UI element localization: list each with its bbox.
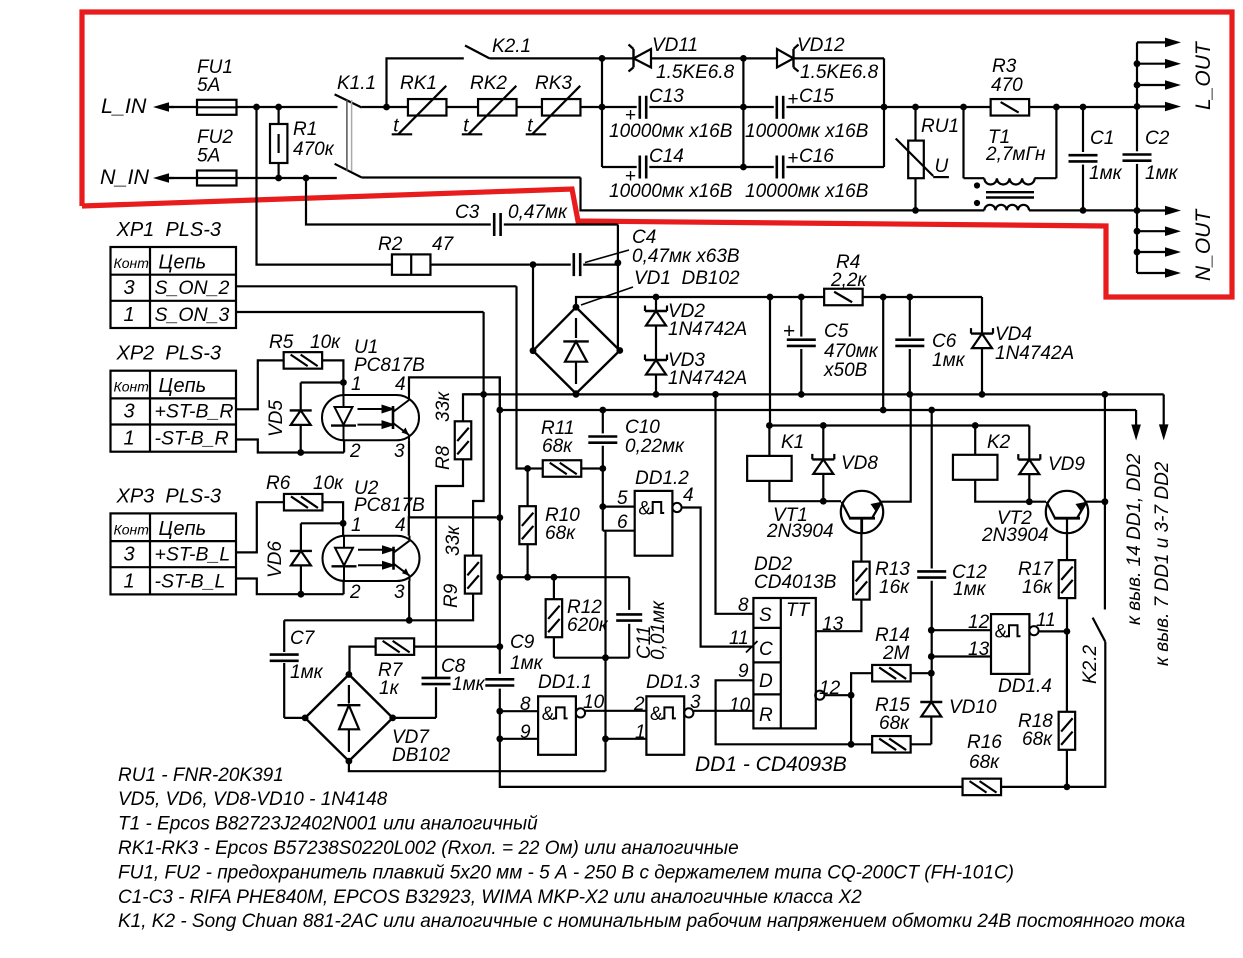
svg-text:13: 13 bbox=[968, 639, 990, 660]
svg-text:2: 2 bbox=[633, 694, 645, 715]
svg-text:3: 3 bbox=[124, 401, 135, 423]
svg-text:N_IN: N_IN bbox=[100, 165, 149, 189]
svg-text:RK2: RK2 bbox=[470, 73, 507, 94]
svg-text:T1 - Epcos B82723J2402N001 или: T1 - Epcos B82723J2402N001 или аналогичн… bbox=[118, 814, 538, 835]
svg-text:1мк: 1мк bbox=[1089, 163, 1123, 184]
svg-text:11: 11 bbox=[1036, 610, 1056, 631]
svg-text:11: 11 bbox=[729, 628, 749, 649]
svg-text:CD4013B: CD4013B bbox=[754, 572, 837, 593]
svg-text:&: & bbox=[542, 704, 555, 725]
svg-text:2: 2 bbox=[349, 441, 361, 462]
svg-text:VD11: VD11 bbox=[652, 35, 698, 56]
svg-text:RK1-RK3 - Epcos B57238S0220L00: RK1-RK3 - Epcos B57238S0220L002 (Rхол. =… bbox=[118, 838, 739, 859]
svg-text:1мк: 1мк bbox=[932, 350, 966, 371]
svg-text:K1, K2 - Song Chuan 881-2AC ил: K1, K2 - Song Chuan 881-2AC или аналогич… bbox=[118, 911, 1185, 932]
svg-text:C3: C3 bbox=[455, 202, 480, 223]
svg-text:C10: C10 bbox=[625, 417, 660, 438]
svg-text:9: 9 bbox=[738, 661, 749, 682]
svg-text:C5: C5 bbox=[824, 321, 849, 342]
svg-text:3: 3 bbox=[394, 441, 405, 462]
svg-text:L_IN: L_IN bbox=[101, 94, 147, 118]
svg-text:FU1, FU2 - предохранитель плав: FU1, FU2 - предохранитель плавкий 5х20 м… bbox=[118, 862, 1014, 883]
svg-text:C1-C3 - RIFA PHE840M, EPCOS B3: C1-C3 - RIFA PHE840M, EPCOS B32923, WIMA… bbox=[118, 887, 862, 908]
svg-text:C6: C6 bbox=[932, 331, 957, 352]
svg-text:VD5, VD6, VD8-VD10 - 1N4148: VD5, VD6, VD8-VD10 - 1N4148 bbox=[118, 789, 388, 810]
svg-text:16к: 16к bbox=[1022, 577, 1053, 598]
svg-text:XP3 PLS-3: XP3 PLS-3 bbox=[116, 485, 222, 507]
svg-text:C14: C14 bbox=[649, 146, 684, 167]
svg-text:4: 4 bbox=[395, 374, 406, 395]
svg-text:C9: C9 bbox=[510, 632, 535, 653]
svg-text:&: & bbox=[995, 622, 1008, 643]
svg-text:&: & bbox=[650, 704, 663, 725]
svg-text:12: 12 bbox=[968, 612, 990, 633]
svg-text:RU1: RU1 bbox=[921, 116, 959, 137]
svg-text:K1.1: K1.1 bbox=[337, 73, 376, 94]
svg-text:+ST-B_R: +ST-B_R bbox=[155, 401, 234, 423]
svg-text:PC817B: PC817B bbox=[354, 495, 425, 516]
svg-text:Цепь: Цепь bbox=[159, 252, 207, 274]
svg-text:R: R bbox=[759, 705, 773, 726]
svg-text:1мк: 1мк bbox=[290, 662, 324, 683]
svg-text:N_OUT: N_OUT bbox=[1192, 208, 1215, 281]
svg-text:S: S bbox=[759, 605, 772, 626]
svg-text:47: 47 bbox=[432, 234, 455, 255]
svg-text:R1: R1 bbox=[293, 119, 317, 140]
svg-text:0,47мк х63В: 0,47мк х63В bbox=[632, 246, 740, 267]
svg-text:10: 10 bbox=[729, 695, 751, 716]
svg-text:5A: 5A bbox=[197, 75, 220, 96]
svg-text:68к: 68к bbox=[969, 752, 1000, 773]
svg-text:0,01мк: 0,01мк bbox=[648, 600, 669, 660]
svg-text:S_ON_2: S_ON_2 bbox=[155, 277, 230, 299]
svg-text:VD12: VD12 bbox=[797, 35, 845, 56]
svg-text:2: 2 bbox=[349, 582, 361, 603]
svg-text:Конт: Конт bbox=[114, 379, 150, 395]
svg-text:9: 9 bbox=[520, 722, 531, 743]
svg-text:VD9: VD9 bbox=[1048, 454, 1085, 475]
svg-text:+: + bbox=[783, 320, 795, 343]
svg-text:S_ON_3: S_ON_3 bbox=[155, 304, 230, 326]
svg-text:0,22мк: 0,22мк bbox=[625, 436, 685, 457]
svg-text:XP1 PLS-3: XP1 PLS-3 bbox=[116, 219, 222, 241]
svg-text:C16: C16 bbox=[799, 146, 834, 167]
svg-text:R6: R6 bbox=[266, 473, 291, 494]
svg-text:DD1 - CD4093B: DD1 - CD4093B bbox=[695, 753, 847, 776]
svg-text:6: 6 bbox=[617, 512, 628, 533]
svg-text:1.5KE6.8: 1.5KE6.8 bbox=[656, 62, 735, 83]
svg-text:1: 1 bbox=[124, 304, 135, 326]
svg-text:R2: R2 bbox=[378, 234, 403, 255]
svg-text:K2.1: K2.1 bbox=[492, 36, 531, 57]
svg-text:2,7мГн: 2,7мГн bbox=[985, 144, 1046, 165]
svg-text:х50В: х50В bbox=[823, 360, 868, 381]
svg-text:VD5: VD5 bbox=[266, 400, 287, 437]
svg-text:RU1 - FNR-20K391: RU1 - FNR-20K391 bbox=[118, 765, 284, 786]
svg-text:+: + bbox=[788, 89, 799, 110]
svg-text:RK1: RK1 bbox=[400, 73, 437, 94]
svg-text:10000мк х16В: 10000мк х16В bbox=[745, 121, 869, 142]
svg-text:470: 470 bbox=[991, 75, 1023, 96]
svg-text:68к: 68к bbox=[545, 523, 576, 544]
svg-text:TT: TT bbox=[786, 600, 811, 621]
svg-text:K2: K2 bbox=[987, 432, 1011, 453]
svg-text:R3: R3 bbox=[992, 56, 1017, 77]
svg-text:2,2к: 2,2к bbox=[830, 270, 867, 291]
svg-text:C7: C7 bbox=[290, 628, 316, 649]
svg-text:470мк: 470мк bbox=[824, 341, 879, 362]
svg-text:68к: 68к bbox=[1022, 729, 1053, 750]
svg-text:Цепь: Цепь bbox=[159, 518, 207, 540]
svg-text:R8: R8 bbox=[433, 445, 454, 470]
svg-text:DD1.4: DD1.4 bbox=[998, 676, 1052, 697]
svg-text:1: 1 bbox=[351, 374, 362, 395]
svg-text:620к: 620к bbox=[567, 615, 609, 636]
svg-text:10000мк х16В: 10000мк х16В bbox=[609, 181, 733, 202]
svg-text:68к: 68к bbox=[879, 713, 910, 734]
svg-text:1к: 1к bbox=[379, 678, 400, 699]
svg-text:C2: C2 bbox=[1145, 128, 1170, 149]
svg-text:3: 3 bbox=[124, 277, 135, 299]
svg-text:+: + bbox=[788, 148, 799, 169]
svg-text:DB102: DB102 bbox=[392, 745, 451, 766]
svg-text:t: t bbox=[527, 115, 533, 136]
svg-text:+ST-B_L: +ST-B_L bbox=[155, 543, 231, 565]
svg-text:1: 1 bbox=[124, 428, 135, 450]
svg-text:8: 8 bbox=[520, 694, 531, 715]
svg-text:DD1.2: DD1.2 bbox=[635, 468, 689, 489]
svg-text:-ST-B_L: -ST-B_L bbox=[155, 570, 226, 592]
svg-text:K2.2: K2.2 bbox=[1080, 644, 1101, 684]
svg-text:33к: 33к bbox=[443, 525, 464, 556]
svg-text:L_OUT: L_OUT bbox=[1192, 40, 1215, 110]
svg-text:2N3904: 2N3904 bbox=[766, 521, 834, 542]
svg-text:1: 1 bbox=[351, 515, 362, 536]
svg-text:DD1.1: DD1.1 bbox=[538, 672, 592, 693]
svg-text:U: U bbox=[935, 156, 949, 177]
svg-text:1мк: 1мк bbox=[1145, 163, 1179, 184]
svg-text:1N4742A: 1N4742A bbox=[668, 368, 747, 389]
svg-text:1N4742A: 1N4742A bbox=[995, 343, 1074, 364]
svg-text:1мк: 1мк bbox=[510, 653, 544, 674]
svg-text:C: C bbox=[759, 639, 773, 660]
svg-text:PC817B: PC817B bbox=[354, 355, 425, 376]
svg-text:C13: C13 bbox=[649, 86, 684, 107]
svg-text:XP2 PLS-3: XP2 PLS-3 bbox=[116, 343, 222, 365]
svg-text:1: 1 bbox=[124, 570, 135, 592]
svg-text:VD10: VD10 bbox=[949, 697, 997, 718]
svg-text:Конт: Конт bbox=[114, 521, 150, 537]
svg-text:10000мк х16В: 10000мк х16В bbox=[745, 181, 869, 202]
svg-text:5A: 5A bbox=[197, 146, 220, 167]
svg-text:C15: C15 bbox=[799, 86, 834, 107]
svg-text:16к: 16к bbox=[879, 577, 910, 598]
svg-text:к выв. 7 DD1 и 3-7 DD2: к выв. 7 DD1 и 3-7 DD2 bbox=[1152, 461, 1173, 666]
svg-text:D: D bbox=[759, 671, 773, 692]
svg-text:-ST-B_R: -ST-B_R bbox=[155, 428, 229, 450]
svg-text:1N4742A: 1N4742A bbox=[668, 319, 747, 340]
svg-text:K1: K1 bbox=[781, 432, 804, 453]
svg-text:1мк: 1мк bbox=[452, 674, 486, 695]
svg-text:t: t bbox=[463, 115, 469, 136]
svg-text:33к: 33к bbox=[433, 391, 454, 422]
svg-text:Конт: Конт bbox=[114, 255, 150, 271]
svg-text:3: 3 bbox=[124, 543, 135, 565]
svg-text:470к: 470к bbox=[293, 139, 335, 160]
svg-text:R5: R5 bbox=[269, 332, 294, 353]
svg-text:C4: C4 bbox=[632, 227, 656, 248]
svg-text:4: 4 bbox=[395, 515, 406, 536]
svg-text:2N3904: 2N3904 bbox=[981, 525, 1049, 546]
svg-text:RK3: RK3 bbox=[535, 73, 572, 94]
svg-text:10000мк х16В: 10000мк х16В bbox=[609, 121, 733, 142]
svg-text:VD1 DB102: VD1 DB102 bbox=[634, 268, 740, 289]
svg-text:C1: C1 bbox=[1090, 128, 1114, 149]
svg-text:1.5KE6.8: 1.5KE6.8 bbox=[800, 62, 879, 83]
svg-text:68к: 68к bbox=[542, 436, 573, 457]
svg-text:к выв. 14 DD1, DD2: к выв. 14 DD1, DD2 bbox=[1124, 453, 1145, 625]
svg-text:5: 5 bbox=[617, 488, 628, 509]
svg-text:10к: 10к bbox=[310, 332, 341, 353]
svg-text:1мк: 1мк bbox=[953, 579, 987, 600]
svg-text:DD1.3: DD1.3 bbox=[646, 672, 700, 693]
svg-text:1: 1 bbox=[635, 722, 646, 743]
svg-text:2M: 2M bbox=[882, 643, 910, 664]
svg-text:10к: 10к bbox=[313, 473, 344, 494]
svg-text:VD8: VD8 bbox=[841, 453, 878, 474]
svg-text:VD4: VD4 bbox=[995, 324, 1032, 345]
svg-text:R16: R16 bbox=[967, 732, 1002, 753]
svg-text:t: t bbox=[393, 115, 399, 136]
svg-text:4: 4 bbox=[683, 485, 694, 506]
svg-text:R9: R9 bbox=[441, 583, 462, 608]
svg-text:3: 3 bbox=[394, 582, 405, 603]
svg-text:VD6: VD6 bbox=[265, 541, 286, 578]
svg-text:&: & bbox=[638, 499, 651, 520]
svg-text:0,47мк: 0,47мк bbox=[508, 202, 568, 223]
svg-text:Цепь: Цепь bbox=[159, 375, 207, 397]
